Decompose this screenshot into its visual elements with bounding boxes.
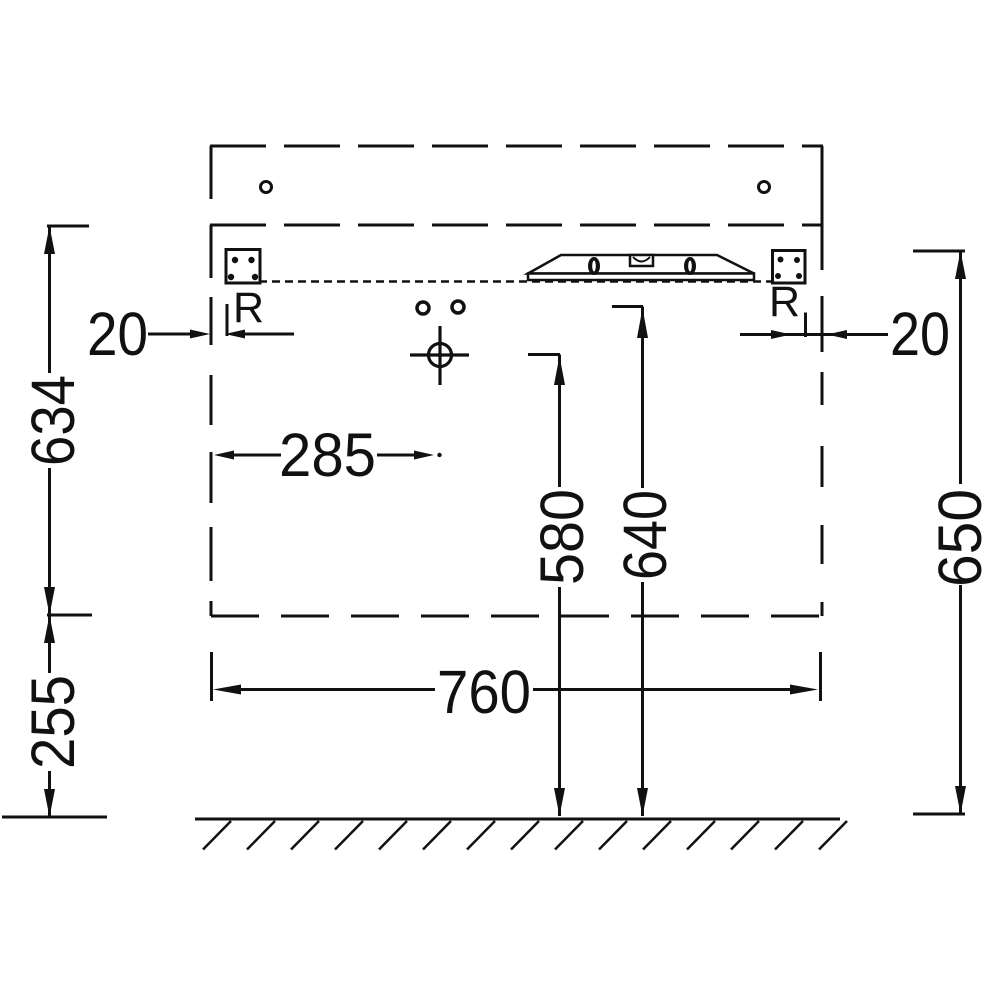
svg-text:760: 760 bbox=[437, 658, 531, 726]
svg-text:285: 285 bbox=[279, 421, 376, 489]
svg-text:R: R bbox=[233, 284, 264, 332]
svg-text:20: 20 bbox=[890, 300, 950, 368]
svg-text:640: 640 bbox=[611, 490, 679, 580]
svg-text:255: 255 bbox=[19, 675, 87, 769]
svg-text:580: 580 bbox=[528, 489, 596, 585]
svg-text:634: 634 bbox=[19, 375, 87, 466]
svg-text:20: 20 bbox=[87, 300, 148, 368]
svg-text:R: R bbox=[769, 278, 800, 326]
svg-text:650: 650 bbox=[926, 489, 994, 587]
